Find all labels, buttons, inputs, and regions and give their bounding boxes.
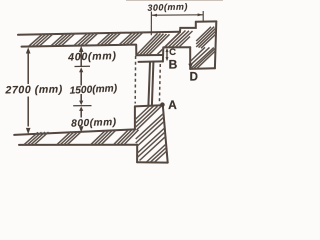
svg-text:D: D xyxy=(190,71,198,83)
svg-text:300(mm): 300(mm) xyxy=(147,1,188,12)
floor hatch group 2 xyxy=(57,131,82,144)
svg-text:A: A xyxy=(168,98,177,112)
300 right extension line xyxy=(202,11,204,21)
floor hatch group 1 xyxy=(24,132,49,145)
point D arrow xyxy=(188,64,192,69)
ceiling hatch group 5 xyxy=(119,32,144,45)
beam hatch group 2 xyxy=(157,31,193,55)
beam left face xyxy=(135,45,137,56)
wall inner face above window xyxy=(189,47,191,69)
spandrel right face xyxy=(163,105,168,162)
2700 bottom arrow xyxy=(26,128,31,134)
300 dimension line xyxy=(151,14,203,16)
floor slab bottom line xyxy=(19,144,137,146)
chain tick 2 xyxy=(73,101,91,111)
ceiling slab top line xyxy=(18,32,180,35)
dashed projection line right xyxy=(158,64,161,104)
window frame head line xyxy=(139,60,163,63)
point A dot xyxy=(160,102,165,107)
300 left extension line xyxy=(150,12,152,36)
svg-text:C: C xyxy=(169,47,176,58)
glass pane line 1 xyxy=(148,62,150,105)
spandrel left face xyxy=(134,106,136,129)
ceiling hatch group 2 xyxy=(51,33,76,46)
right wall hatch upper xyxy=(196,27,216,49)
right wall hatch lower xyxy=(191,47,216,69)
dashed projection line left xyxy=(134,56,136,104)
beam bottom line xyxy=(136,54,163,56)
window head line xyxy=(164,46,191,48)
floor slab top line xyxy=(14,129,135,135)
C-B mini dimension xyxy=(166,50,168,60)
svg-text:800(mm): 800(mm) xyxy=(71,117,117,130)
spandrel hatch band 4 xyxy=(147,144,167,162)
svg-text:400(mm): 400(mm) xyxy=(67,50,117,64)
parapet top line xyxy=(196,20,217,22)
spandrel hatch band 3 xyxy=(137,128,166,161)
ceiling hatch group 4 xyxy=(97,32,122,45)
chain dimension line xyxy=(80,51,82,118)
beam hatch group 1 xyxy=(137,33,170,55)
300 left arrow xyxy=(151,14,157,17)
ceiling hatch group 1 xyxy=(29,33,54,46)
floor hatch group 3 xyxy=(91,131,116,145)
2700 top arrow xyxy=(26,47,31,53)
wall face below floor xyxy=(136,145,138,163)
parapet step outline xyxy=(180,22,196,32)
2700 dimension line xyxy=(27,54,29,127)
spandrel hatch band 2 xyxy=(136,113,165,146)
floor hatch group 4 xyxy=(114,130,139,144)
ceiling hatch group 3 xyxy=(74,33,99,46)
chain bottom arrow xyxy=(79,126,84,132)
chain top arrow xyxy=(79,46,84,52)
scan edge artifact top xyxy=(126,0,223,2)
svg-text:B: B xyxy=(169,57,178,71)
glass pane line 2 xyxy=(152,62,154,105)
window jamb vertical xyxy=(162,47,164,61)
chain tick 1 xyxy=(75,66,91,72)
wall outer face xyxy=(215,21,216,68)
ceiling slab bottom line xyxy=(22,45,137,47)
wall bottom soffit xyxy=(190,67,215,70)
svg-text:2700 (mm): 2700 (mm) xyxy=(4,84,63,97)
window sill top line xyxy=(135,105,162,106)
spandrel hatch band 1 xyxy=(136,106,161,130)
300 right arrow xyxy=(198,13,204,16)
spandrel bottom line xyxy=(137,161,168,163)
